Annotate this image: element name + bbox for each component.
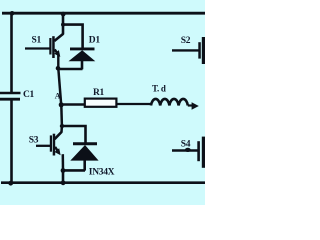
body bar — [202, 37, 205, 64]
svg-text:T. d: T. d — [152, 84, 166, 94]
svg-text:S3: S3 — [29, 135, 39, 145]
wire: node A down to S3 branch — [60, 105, 63, 126]
node: IN34X branch junction — [60, 124, 64, 128]
wire: upper leg collector segment — [62, 13, 65, 34]
cathode bar — [70, 47, 95, 50]
gate bar — [49, 38, 51, 55]
svg-text:D1: D1 — [89, 35, 101, 45]
gate lead — [172, 149, 198, 151]
wire: R1 to inductor — [116, 103, 151, 105]
cathode bar — [73, 142, 97, 145]
gate lead — [36, 145, 51, 147]
svg-text:A: A — [55, 91, 61, 100]
node: emitter/D1 junction — [56, 66, 61, 71]
wire: branch to IN34X cathode — [62, 126, 86, 143]
wire: S1 emitter segment — [57, 55, 59, 68]
body bar — [202, 137, 205, 168]
svg-text:S4: S4 — [181, 140, 191, 150]
svg-text:S2: S2 — [181, 36, 191, 46]
wire: leg down to bottom rail — [62, 171, 65, 184]
wire: D1 anode return — [58, 68, 83, 71]
node: junction dot top-left — [10, 11, 15, 16]
collector diagonal — [55, 132, 62, 140]
svg-text:IN34X: IN34X — [89, 168, 115, 178]
transistor S1 (IGBT) — [25, 34, 63, 58]
node A — [59, 102, 64, 107]
gate lead — [25, 47, 50, 49]
node: junction dot bottom-left — [8, 181, 13, 186]
collector diagonal — [54, 34, 63, 41]
svg-text:R1: R1 — [93, 88, 105, 98]
wire: branch to D1 cathode — [63, 25, 83, 49]
wire: top DC rail — [2, 12, 205, 15]
resistor R1 — [85, 99, 117, 107]
emitter diagonal with arrow — [55, 147, 59, 153]
wire: left vertical bus — [10, 13, 13, 93]
wire: leg down to node A — [58, 68, 61, 105]
node: D1 branch junction — [61, 23, 65, 27]
blob on gate lead — [185, 148, 191, 152]
node: junction dot on top rail (leg) — [61, 12, 66, 17]
inductor T.d — [151, 99, 188, 106]
wire: leg to S3 collector — [60, 126, 63, 132]
gate bar — [198, 42, 201, 58]
svg-text:C1: C1 — [23, 90, 35, 100]
gate bar — [50, 135, 52, 151]
wire: bottom DC rail — [1, 181, 205, 184]
emitter diagonal with arrow — [55, 49, 59, 55]
anode lead down — [81, 61, 84, 70]
body bar — [52, 36, 55, 58]
capacitor C1 — [0, 92, 21, 95]
triangle anode (points up) — [69, 50, 96, 61]
wire: IN34X anode return — [63, 169, 85, 172]
wire: S3 emitter segment — [62, 154, 65, 170]
node: junction dot on bottom rail (leg) — [61, 180, 66, 185]
diode IN34X — [70, 144, 98, 171]
node: emitter/IN34X junction — [61, 168, 66, 173]
transistor S3 (IGBT) — [36, 132, 62, 156]
svg-text:S1: S1 — [32, 35, 42, 45]
gate bar — [197, 141, 200, 161]
wire: node A to R1 — [61, 103, 85, 105]
wire: inductor output with arrow — [188, 104, 193, 106]
body bar — [53, 134, 56, 156]
gate lead — [172, 49, 199, 51]
triangle anode (points up) — [70, 145, 98, 161]
anode lead down — [83, 160, 86, 171]
diode D1 (freewheeling) — [69, 49, 96, 69]
transistor S2 (IGBT, clipped at edge) — [172, 37, 205, 64]
transistor S4 (IGBT, clipped at edge) — [172, 137, 205, 168]
